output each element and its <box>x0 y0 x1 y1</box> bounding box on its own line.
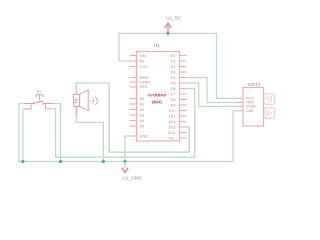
DIST1 pin labels <box>246 97 256 114</box>
svg-text:UNO: UNO <box>152 99 163 105</box>
S1 pin stubs <box>25 104 54 110</box>
svg-text:D11: D11 <box>169 114 176 118</box>
wire 5V left drop to U1 5V pin <box>119 33 130 61</box>
wire button upper-left stub link <box>19 103 25 105</box>
svg-text:A5: A5 <box>140 124 145 128</box>
wire ground bus <box>19 104 237 162</box>
svg-text:U1_GND: U1_GND <box>122 175 142 181</box>
speaker top pin stub <box>75 90 77 94</box>
power symbol U1_5V arrow <box>165 23 171 33</box>
svg-text:S1: S1 <box>36 88 42 93</box>
svg-text:U1: U1 <box>154 43 160 49</box>
svg-text:3.3V: 3.3V <box>140 65 148 69</box>
svg-text:A2: A2 <box>140 108 145 112</box>
svg-text:RES: RES <box>140 85 148 89</box>
svg-text:D7: D7 <box>171 92 176 96</box>
node U1_5V junction <box>166 32 169 35</box>
wire 5V bus horizontal <box>119 32 217 34</box>
node bus junction button lower-left <box>21 160 24 163</box>
svg-text:U1_5V: U1_5V <box>166 16 181 22</box>
svg-text:GND: GND <box>246 109 254 113</box>
svg-text:A3: A3 <box>140 113 145 117</box>
svg-text:TX: TX <box>171 59 176 63</box>
wire button lower-left to bus <box>23 109 25 162</box>
S1 contacts and lever <box>34 101 44 103</box>
wire speaker plus vertical <box>75 83 77 90</box>
wire D6 to button lower-right <box>50 89 195 158</box>
svg-text:AREF: AREF <box>140 76 151 80</box>
DIST1 transmitter transducer <box>264 94 275 104</box>
svg-text:A0: A0 <box>140 97 145 101</box>
svg-text:D12: D12 <box>169 120 176 124</box>
svg-text:Arduino: Arduino <box>148 92 167 98</box>
U1 right pin stubs <box>180 56 187 139</box>
svg-text:A4: A4 <box>140 119 145 123</box>
svg-text:RX: RX <box>170 54 176 58</box>
svg-text:D5: D5 <box>171 81 176 85</box>
svg-text:SCL: SCL <box>168 136 175 140</box>
U1 left pin stubs <box>130 56 137 137</box>
DIST1 receiver transducer <box>264 108 275 118</box>
svg-text:D6: D6 <box>171 87 176 91</box>
svg-text:D3: D3 <box>171 70 176 74</box>
svg-text:5V: 5V <box>140 59 145 63</box>
DIST1 pin stubs <box>237 98 244 111</box>
wire speaker minus to bus <box>76 116 103 162</box>
ground symbol U1_GND arrow <box>122 162 128 173</box>
microcontroller U1 Arduino UNO body <box>137 52 180 142</box>
sensor DIST1 body <box>243 88 264 127</box>
svg-text:DIST1: DIST1 <box>247 82 260 87</box>
svg-text:IOREF: IOREF <box>140 81 152 85</box>
node bus junction speaker minus <box>102 160 105 163</box>
S1 plunger tip <box>39 101 40 102</box>
U1 right pin labels <box>168 54 176 141</box>
svg-text:D8: D8 <box>171 98 176 102</box>
U1 left pin labels <box>140 54 152 139</box>
speaker coil mark <box>75 99 78 102</box>
svg-text:D9: D9 <box>171 103 176 107</box>
node bus junction U1 GND <box>123 160 126 163</box>
wire 5V right drop to DIST1 VCC <box>217 33 237 98</box>
wire D5 to ECHO <box>187 83 237 106</box>
svg-text:D4: D4 <box>171 76 176 80</box>
node bus junction button upper-right <box>59 160 62 163</box>
S1 cap <box>35 95 43 100</box>
wire U1 GND to bus <box>125 136 130 162</box>
svg-text:D10: D10 <box>169 109 176 113</box>
speaker bottom pin stub <box>75 107 77 116</box>
wire D4 to TRIG <box>187 78 237 103</box>
speaker LS1 driver <box>74 94 80 106</box>
svg-text:D13: D13 <box>169 125 176 129</box>
svg-text:SCA: SCA <box>168 131 176 135</box>
svg-text:GND: GND <box>140 134 149 138</box>
svg-text:D2: D2 <box>171 65 176 69</box>
speaker sound waves <box>90 97 98 105</box>
wire D13 to speaker plus <box>76 83 189 152</box>
svg-text:A1: A1 <box>140 102 145 106</box>
speaker cone <box>80 90 89 111</box>
svg-text:VIN: VIN <box>140 54 146 58</box>
wire button upper-right to bus <box>54 104 61 162</box>
